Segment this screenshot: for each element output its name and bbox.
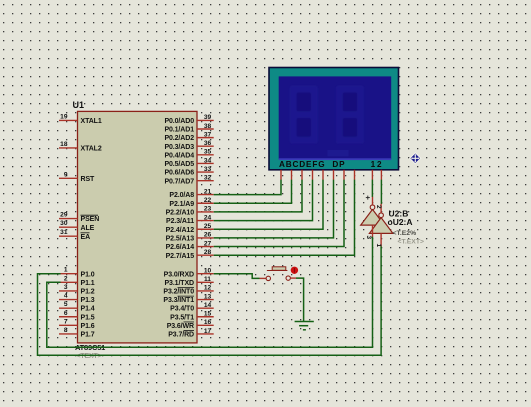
U1 pin 10 P3.0/RXD — [164, 268, 214, 279]
ground symbol — [295, 322, 314, 330]
svg-text:P3.6/WR: P3.6/WR — [167, 323, 194, 330]
7-segment display module body — [269, 68, 399, 170]
wire display pin 1 to U2:B output — [371, 180, 373, 197]
svg-text:P2.3/A11: P2.3/A11 — [166, 218, 194, 225]
U1 pin 35 P0.4/AD4 — [164, 149, 213, 160]
U1 pin 27 P2.6/A14 — [166, 240, 214, 251]
U1 pin 13 P3.3/INT1 — [163, 293, 213, 304]
svg-text:P0.2/AD2: P0.2/AD2 — [164, 135, 194, 142]
wire U1 P1.0 to U2:A input (outer loop) — [38, 246, 382, 355]
inverter U2:B — [361, 209, 385, 225]
svg-text:24: 24 — [204, 214, 212, 221]
svg-text:5: 5 — [64, 301, 68, 308]
svg-text:XTAL2: XTAL2 — [81, 146, 102, 153]
U2:A output bubble — [379, 204, 384, 218]
svg-text:17: 17 — [204, 328, 212, 335]
svg-text:P2.2/A10: P2.2/A10 — [166, 210, 195, 217]
U1 pin 29 PSEN — [59, 212, 99, 224]
U1 pin 36 P0.3/AD3 — [164, 140, 213, 151]
wire display pin 2 to U2:A output — [380, 180, 382, 204]
display pin G — [343, 170, 345, 180]
svg-text:1: 1 — [64, 267, 68, 274]
U1 pin 12 P3.2/INT0 — [163, 285, 213, 296]
wire display E to U1 P2.4 — [214, 180, 323, 230]
U2:B pin number 2 — [375, 205, 382, 209]
wire button to ground — [296, 278, 304, 321]
U1 pin 23 P2.2/A10 — [166, 206, 214, 217]
U1 pin 9 RST — [59, 171, 95, 183]
U1 pin 4 P1.3 — [59, 293, 95, 305]
U1 pin 34 P0.5/AD5 — [164, 157, 213, 168]
display pin D — [312, 170, 314, 180]
svg-text:<T.E2%: <T.E2% — [393, 230, 417, 237]
svg-text:35: 35 — [204, 149, 212, 156]
svg-text:P1.1: P1.1 — [81, 280, 95, 287]
svg-text:3: 3 — [365, 236, 372, 240]
svg-text:26: 26 — [204, 232, 212, 239]
wire display D to U1 P2.3 — [214, 180, 313, 221]
IC U1 AT89C51 body — [78, 111, 198, 343]
svg-text:23: 23 — [204, 206, 212, 213]
svg-text:29: 29 — [60, 212, 68, 219]
svg-text:P1.0: P1.0 — [81, 271, 95, 278]
U1 pin 1 P1.0 — [59, 267, 95, 279]
U1 pin 2 P1.1 — [59, 275, 95, 287]
svg-text:P1.5: P1.5 — [81, 314, 95, 321]
svg-text:7: 7 — [64, 318, 68, 325]
wire display B to U1 P2.1 — [214, 180, 292, 204]
svg-text:19: 19 — [60, 113, 68, 120]
U1 pin 24 P2.3/A11 — [166, 214, 214, 225]
svg-text:11: 11 — [204, 276, 211, 283]
svg-text:P0.1/AD1: P0.1/AD1 — [164, 127, 194, 134]
U1 pin 32 P0.7/AD7 — [164, 174, 213, 185]
U2:A pin number 1 — [375, 244, 382, 248]
U1 pin 26 P2.5/A13 — [166, 232, 214, 243]
svg-text:32: 32 — [204, 174, 212, 181]
svg-text:33: 33 — [204, 166, 212, 173]
svg-text:P3.3/INT1: P3.3/INT1 — [163, 297, 194, 304]
svg-text:38: 38 — [204, 123, 212, 130]
svg-text:P0.5/AD5: P0.5/AD5 — [164, 161, 194, 168]
U1 pin 15 P3.5/T1 — [170, 311, 214, 322]
origin marker (blue diamond move-cross) — [410, 153, 421, 164]
svg-text:14: 14 — [204, 302, 212, 309]
U1 pin 14 P3.4/T0 — [170, 302, 214, 313]
svg-text:RST: RST — [81, 176, 96, 183]
display pin E — [322, 170, 324, 180]
svg-text:P3.0/RXD: P3.0/RXD — [164, 271, 194, 278]
display decimal point region — [328, 150, 349, 156]
svg-text:6: 6 — [64, 310, 68, 317]
U2:B reference label — [389, 209, 409, 219]
display pin A — [280, 170, 282, 180]
svg-text:28: 28 — [204, 249, 212, 256]
svg-text:30: 30 — [60, 220, 68, 227]
button state indicator (red dot) — [291, 267, 298, 274]
svg-text:2: 2 — [64, 275, 68, 282]
svg-text:P2.4/A12: P2.4/A12 — [166, 227, 195, 234]
svg-text:36: 36 — [204, 140, 212, 147]
svg-text:P2.1/A9: P2.1/A9 — [169, 201, 194, 208]
svg-text:13: 13 — [204, 293, 212, 300]
svg-text:<TEXT>: <TEXT> — [77, 353, 102, 360]
wire display G to U1 P2.6 — [214, 180, 344, 247]
svg-text:22: 22 — [204, 197, 212, 204]
U1 pin 7 P1.6 — [59, 318, 95, 330]
display pin DP — [354, 170, 356, 180]
U1 pin 39 P0.0/AD0 — [164, 114, 213, 125]
svg-text:16: 16 — [204, 319, 212, 326]
U1 pin 21 P2.0/A8 — [169, 188, 213, 199]
U1 pin 22 P2.1/A9 — [169, 197, 213, 208]
svg-text:P0.0/AD0: P0.0/AD0 — [164, 118, 194, 125]
U1 pin 31 EA — [59, 229, 90, 241]
svg-text:P0.4/AD4: P0.4/AD4 — [164, 152, 194, 159]
svg-text:2: 2 — [375, 205, 382, 209]
U1 pin 38 P0.1/AD1 — [164, 123, 213, 134]
U2:A input pin stub — [380, 233, 382, 246]
button (push switch) — [266, 267, 290, 281]
svg-text:P1.3: P1.3 — [81, 297, 95, 304]
svg-text:XTAL1: XTAL1 — [81, 118, 102, 125]
button left pin stub — [260, 277, 267, 279]
U1 pin 25 P2.4/A12 — [166, 223, 214, 234]
U2:A reference label — [388, 217, 413, 227]
svg-text:P3.7/RD: P3.7/RD — [168, 332, 194, 339]
U1 pin 6 P1.5 — [59, 310, 95, 322]
inverter U2:A — [369, 218, 393, 234]
U1 pin 16 P3.6/WR — [167, 319, 214, 330]
svg-text:15: 15 — [204, 311, 212, 318]
svg-text:PSEN: PSEN — [81, 216, 100, 223]
wire display A to U1 P2.0 — [214, 180, 281, 195]
U2:B anchor cross — [366, 196, 370, 200]
U2 text placeholder grey — [398, 239, 424, 246]
svg-text:3: 3 — [64, 284, 68, 291]
U1 pin 28 P2.7/A15 — [166, 249, 214, 260]
svg-text:oU2:A: oU2:A — [388, 217, 413, 227]
U2 text placeholder dark — [393, 230, 417, 237]
svg-text:37: 37 — [204, 131, 212, 138]
svg-text:U1: U1 — [73, 100, 85, 110]
display pin F — [333, 170, 335, 180]
svg-text:9: 9 — [64, 171, 68, 178]
svg-text:10: 10 — [204, 268, 212, 275]
wire U1 P1.1 to U2:B input (inner loop) — [47, 237, 373, 347]
U2:B output bubble — [370, 197, 375, 210]
svg-text:8: 8 — [64, 327, 68, 334]
U1 pin 3 P1.2 — [59, 284, 95, 296]
svg-text:P3.2/INT0: P3.2/INT0 — [163, 289, 194, 296]
svg-text:<T.EXT>: <T.EXT> — [398, 239, 424, 246]
wire display F to U1 P2.5 — [214, 180, 334, 238]
svg-text:P2.6/A14: P2.6/A14 — [166, 244, 195, 251]
svg-text:ALE: ALE — [81, 225, 95, 232]
svg-text:P2.5/A13: P2.5/A13 — [166, 236, 195, 243]
U1 reference label — [73, 100, 85, 110]
svg-text:P2.7/A15: P2.7/A15 — [166, 253, 195, 260]
svg-text:P3.4/T0: P3.4/T0 — [170, 306, 194, 313]
U1 pin 17 P3.7/RD — [168, 328, 213, 339]
display pin C — [301, 170, 303, 180]
svg-text:21: 21 — [204, 188, 212, 195]
wire display C to U1 P2.2 — [214, 180, 302, 212]
svg-text:P3.1/TXD: P3.1/TXD — [164, 280, 194, 287]
svg-text:34: 34 — [204, 157, 212, 164]
U1 pin 11 P3.1/TXD — [164, 276, 213, 287]
svg-text:P1.2: P1.2 — [81, 289, 95, 296]
svg-text:P1.4: P1.4 — [81, 306, 95, 313]
svg-text:39: 39 — [204, 114, 212, 121]
svg-text:EA: EA — [81, 234, 91, 241]
display pin 2 — [380, 170, 382, 180]
svg-text:12: 12 — [204, 285, 212, 292]
svg-text:4: 4 — [64, 293, 68, 300]
svg-text:P0.6/AD6: P0.6/AD6 — [164, 170, 194, 177]
svg-text:DP: DP — [332, 160, 345, 169]
svg-text:P1.6: P1.6 — [81, 323, 95, 330]
svg-text:P0.7/AD7: P0.7/AD7 — [164, 178, 194, 185]
wire U1 P3.0 to button — [214, 274, 260, 279]
button right pin stub — [290, 277, 296, 279]
svg-text:P0.3/AD3: P0.3/AD3 — [164, 144, 194, 151]
U1 pin 8 P1.7 — [59, 327, 95, 339]
svg-text:P1.7: P1.7 — [81, 332, 95, 339]
svg-text:27: 27 — [204, 240, 212, 247]
svg-text:12: 12 — [371, 160, 384, 169]
display digit 2 (all segments) — [336, 86, 364, 144]
U1 pin 30 ALE — [59, 220, 95, 232]
svg-text:31: 31 — [60, 229, 68, 236]
svg-text:ABCDEFG: ABCDEFG — [279, 160, 325, 169]
U1 text placeholder — [77, 353, 102, 360]
display segment labels ABCDEFG DP — [279, 160, 345, 169]
U1 pin 19 XTAL1 — [59, 113, 102, 125]
display digit-select labels 12 — [371, 160, 384, 169]
wire display DP to U1 P2.7 — [214, 180, 355, 256]
display pin 1 — [371, 170, 373, 180]
U2:B input pin stub — [372, 225, 374, 237]
display digit 1 (all segments) — [290, 86, 318, 144]
U1 pin 37 P0.2/AD2 — [164, 131, 213, 142]
svg-text:P3.5/T1: P3.5/T1 — [170, 314, 194, 321]
svg-text:18: 18 — [60, 141, 68, 148]
U1 pin 18 XTAL2 — [59, 141, 102, 153]
U1 pin 33 P0.6/AD6 — [164, 166, 213, 177]
svg-text:25: 25 — [204, 223, 212, 230]
display pin B — [291, 170, 293, 180]
svg-text:P2.0/A8: P2.0/A8 — [169, 192, 194, 199]
U1 value label AT89C51 — [75, 343, 105, 352]
U1 pin 5 P1.4 — [59, 301, 95, 313]
U2:B pin number 3 — [365, 236, 372, 240]
